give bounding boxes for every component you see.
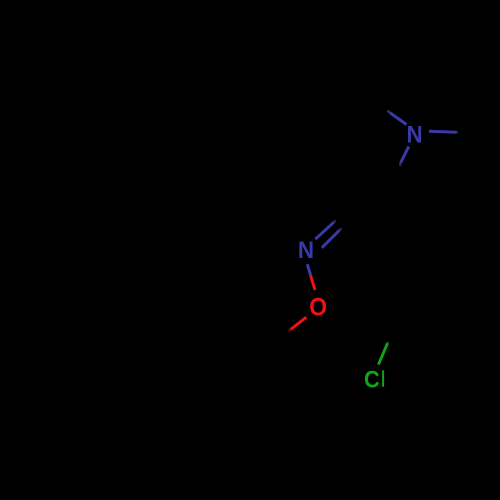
svg-text:C: C — [364, 365, 380, 392]
bond C-Cl, Cl half green — [378, 343, 387, 364]
bond N1 down-left carbon tip fade — [399, 163, 402, 166]
svg-text:N: N — [407, 120, 423, 147]
oxime C=N lower line carbon tip fade — [340, 228, 342, 230]
bond N1 to methyl (right), N half blue — [429, 130, 457, 134]
atom Cl letter l stem — [382, 370, 384, 386]
oxime C=N upper line carbon tip fade — [334, 220, 336, 222]
oxime C=N double bond, lower line (N half blue) — [322, 230, 340, 248]
bond N2-O, N half blue — [307, 264, 310, 275]
svg-text:N: N — [298, 236, 314, 263]
bond C-Cl carbon tip fade — [386, 342, 389, 343]
bond N1-methyl carbon tip fade — [457, 131, 459, 134]
oxime C=N double bond, upper line (N half blue) — [315, 222, 334, 239]
bond O down-left carbon tip fade — [289, 329, 291, 331]
bond O down-left, O half red — [291, 317, 307, 329]
bond N2-O, O half red — [311, 275, 315, 290]
bond N1 up-left carbon tip fade — [387, 111, 390, 113]
bond N1 down-left, blue half — [401, 147, 409, 164]
bond N1 up-left, blue half — [390, 113, 407, 125]
svg-text:O: O — [309, 294, 327, 322]
